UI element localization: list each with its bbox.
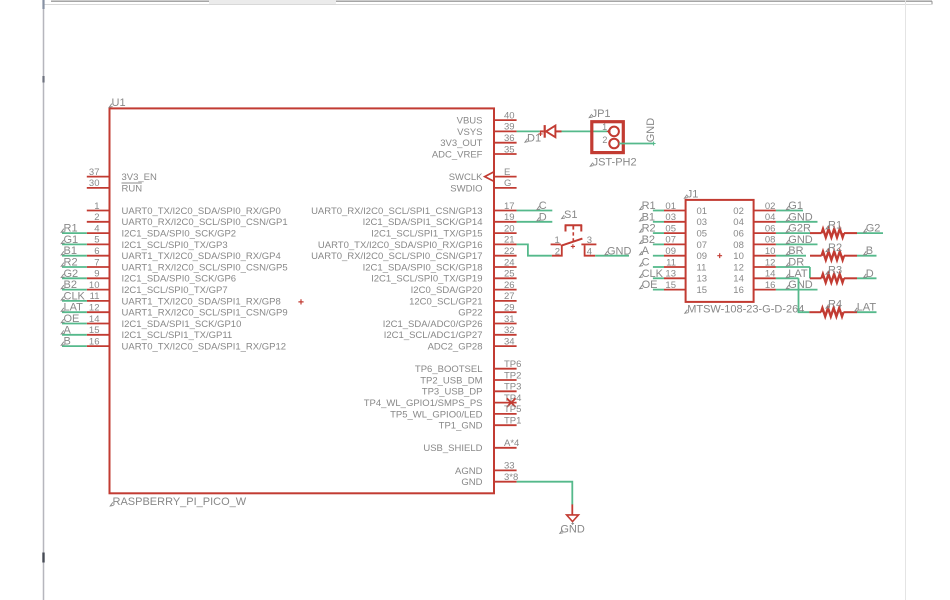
wire net DR from J1 pin 12 (776, 257, 810, 269)
J1 pin 10 right (733, 246, 776, 262)
svg-text:D: D (866, 268, 874, 280)
svg-text:22: 22 (504, 246, 515, 257)
wire net B2 to U1 pin 10 (61, 279, 87, 291)
U1 pin 33 (AGND) right (455, 461, 517, 477)
svg-text:01: 01 (665, 201, 676, 212)
svg-text:01: 01 (697, 206, 708, 217)
U1 pin 20 (I2C1_SCL/SPI1_TX/GP15) right (371, 223, 517, 239)
svg-text:VBUS: VBUS (457, 116, 483, 127)
svg-text:21: 21 (504, 235, 515, 246)
svg-text:3*8: 3*8 (504, 472, 518, 483)
U1 pin 14 (I2C1_SDA/SPI1_SCK/GP10) left (87, 314, 242, 330)
svg-text:LAT: LAT (64, 302, 84, 314)
svg-text:G2: G2 (866, 223, 881, 235)
J1 pin 08 right (733, 235, 776, 251)
J1 pin 11 left (664, 257, 706, 273)
J1 refdes label (684, 195, 687, 199)
J1 pin 16 right (733, 280, 776, 296)
svg-text:30: 30 (89, 178, 100, 189)
svg-text:I2C1_SCL/SPI1_TX/GP15: I2C1_SCL/SPI1_TX/GP15 (371, 229, 482, 240)
wire net G1 to U1 pin 5 (61, 234, 87, 246)
svg-text:TP1_GND: TP1_GND (439, 421, 483, 432)
R1 refdes label (826, 225, 829, 229)
svg-text:2: 2 (94, 212, 99, 223)
U1 pin TP3 (TP3_USB_DP) right (422, 382, 522, 398)
svg-text:ADC_VREF: ADC_VREF (432, 149, 483, 160)
svg-text:UART1_TX/I2C0_SDA/SPI0_RX/GP4: UART1_TX/I2C0_SDA/SPI0_RX/GP4 (122, 251, 281, 262)
wire net C from U1 pin 17 (517, 200, 553, 212)
svg-text:7: 7 (94, 257, 99, 268)
J1 pin 04 right (733, 212, 776, 228)
svg-text:12C0_SCL/GP21: 12C0_SCL/GP21 (409, 296, 482, 307)
svg-text:33: 33 (504, 461, 515, 472)
svg-text:I2C1_SCL/ADC1/GP27: I2C1_SCL/ADC1/GP27 (384, 330, 483, 341)
svg-text:RUN: RUN (122, 183, 143, 194)
J1 pin 13 left (664, 269, 707, 285)
svg-text:UART1_TX/I2C0_SDA/SPI1_RX/GP8: UART1_TX/I2C0_SDA/SPI1_RX/GP8 (122, 296, 281, 307)
svg-text:C: C (642, 257, 650, 269)
svg-text:UART0_TX/I2C0_SDA/SPI0_RX/GP0: UART0_TX/I2C0_SDA/SPI0_RX/GP0 (122, 206, 281, 217)
svg-text:TP6_BOOTSEL: TP6_BOOTSEL (415, 364, 483, 375)
svg-text:13: 13 (665, 269, 676, 280)
svg-text:VSYS: VSYS (457, 127, 482, 138)
svg-text:I2C1_SCL/SPI0_TX/GP7: I2C1_SCL/SPI0_TX/GP7 (122, 285, 228, 296)
U1 pin TP1 (TP1_GND) right (439, 416, 522, 432)
diode D1 (540, 125, 562, 138)
svg-text:26: 26 (504, 280, 515, 291)
wire D1 to JP1 pin1 (562, 130, 610, 132)
svg-text:10: 10 (733, 251, 744, 262)
svg-text:3V3_OUT: 3V3_OUT (440, 138, 482, 149)
svg-text:R2: R2 (642, 223, 656, 235)
svg-text:ADC2_GP28: ADC2_GP28 (428, 342, 483, 353)
svg-text:08: 08 (733, 240, 744, 251)
wire net CLK to J1 pin 13 (640, 268, 664, 280)
svg-text:15: 15 (665, 280, 676, 291)
U1 pin G (SWDIO) right (450, 178, 516, 194)
svg-text:I2C1_SCL/SPI0_TX/GP19: I2C1_SCL/SPI0_TX/GP19 (371, 274, 482, 285)
U1 pin TP6 (TP6_BOOTSEL) right (415, 359, 522, 375)
svg-text:B: B (866, 245, 873, 257)
U1 pin 35 (ADC_VREF) right (432, 144, 517, 160)
wire net LAT to U1 pin 12 (61, 302, 87, 314)
svg-text:11: 11 (90, 291, 100, 302)
svg-text:16: 16 (733, 285, 744, 296)
svg-text:20: 20 (504, 223, 515, 234)
svg-text:AGND: AGND (455, 466, 483, 477)
svg-text:09: 09 (697, 251, 708, 262)
wire net GND from J1 pin 16 (776, 279, 818, 291)
svg-text:I2C1_SDA/SPI0_SCK/GP2: I2C1_SDA/SPI0_SCK/GP2 (122, 229, 237, 240)
svg-text:CLK: CLK (642, 268, 664, 280)
svg-text:9: 9 (94, 269, 99, 280)
svg-text:5: 5 (94, 235, 99, 246)
svg-text:10: 10 (765, 246, 776, 257)
svg-text:I2C1_SCL/SPI0_TX/GP3: I2C1_SCL/SPI0_TX/GP3 (122, 240, 228, 251)
svg-text:06: 06 (733, 229, 744, 240)
U1 pin 39 (VSYS) right (457, 122, 516, 138)
U1 pin 30 (RUN) left (87, 178, 142, 194)
svg-text:TP5_WL_GPIO0/LED: TP5_WL_GPIO0/LED (390, 409, 483, 420)
S1 pin 3 (581, 243, 596, 245)
svg-text:SWDIO: SWDIO (450, 183, 482, 194)
svg-text:15: 15 (89, 325, 100, 336)
wire net R1 to J1 pin 01 (640, 200, 664, 212)
svg-text:4: 4 (587, 246, 592, 257)
svg-text:07: 07 (665, 235, 676, 246)
J1 pin 02 right (733, 201, 776, 217)
svg-text:GND: GND (788, 279, 813, 291)
svg-text:G1: G1 (64, 234, 79, 246)
svg-text:TP2_USB_DM: TP2_USB_DM (420, 375, 482, 386)
J1 pin 06 right (733, 223, 776, 239)
svg-text:09: 09 (665, 246, 676, 257)
U1 refdes label (109, 104, 112, 108)
svg-text:UART0_RX/I2C0_SCL/SPI1_CSN/GP1: UART0_RX/I2C0_SCL/SPI1_CSN/GP13 (311, 206, 482, 217)
svg-text:R3: R3 (828, 265, 842, 277)
connector JP1 outline (592, 122, 624, 153)
svg-text:16: 16 (765, 280, 776, 291)
U1 pin 4 (I2C1_SDA/SPI0_SCK/GP2) left (87, 223, 236, 239)
resistor R3 (810, 274, 857, 282)
JP1 value label JST-PH2 (590, 163, 593, 167)
svg-text:I2C0_SDA/GP20: I2C0_SDA/GP20 (411, 285, 483, 296)
svg-text:05: 05 (665, 223, 676, 234)
wire net A to U1 pin 15 (61, 324, 87, 336)
svg-text:1: 1 (94, 201, 99, 212)
svg-text:E: E (504, 167, 510, 178)
wire GND from U1 pin 3*8 (517, 482, 573, 505)
wire net BR from J1 pin 10 (776, 245, 806, 257)
svg-text:08: 08 (765, 235, 776, 246)
wire DR down to R3 (809, 267, 811, 278)
svg-text:B1: B1 (64, 245, 77, 257)
U1 pin 15 (I2C1_SCL/SPI1_TX/GP11) left (87, 325, 232, 341)
U1 pin 16 (UART0_TX/I2C0_SDA/SPI1_RX/GP12) left (87, 336, 286, 352)
svg-text:SWCLK: SWCLK (449, 172, 483, 183)
svg-text:CLK: CLK (64, 290, 86, 302)
svg-text:12: 12 (765, 257, 776, 268)
wire net G2 to U1 pin 9 (61, 268, 87, 280)
svg-text:UART0_RX/I2C0_SCL/SPI0_CSN/GP1: UART0_RX/I2C0_SCL/SPI0_CSN/GP1 (122, 217, 288, 228)
svg-text:RASPBERRY_PI_PICO_W: RASPBERRY_PI_PICO_W (113, 496, 247, 508)
wire JP1 pin2 to GND (619, 143, 654, 145)
svg-text:10: 10 (89, 280, 100, 291)
resistor R2 (810, 252, 857, 260)
svg-text:UART0_TX/I2C0_SDA/SPI1_RX/GP12: UART0_TX/I2C0_SDA/SPI1_RX/GP12 (122, 342, 287, 353)
svg-text:TP1: TP1 (504, 416, 521, 427)
IC U1 RASPBERRY_PI_PICO_W outline (110, 108, 495, 493)
svg-text:15: 15 (697, 285, 708, 296)
wire net D from R3 (857, 268, 877, 280)
U1 pin 34 (ADC2_GP28) right (428, 336, 517, 352)
svg-text:R1: R1 (828, 219, 842, 231)
JP1 pin 1 circle (609, 127, 619, 137)
svg-text:JST-PH2: JST-PH2 (593, 157, 637, 169)
wire net G2 from R1 (857, 223, 883, 235)
U1 pin 31 (I2C1_SDA/ADC0/GP26) right (383, 314, 517, 330)
wire net GND from J1 pin 04 (776, 211, 818, 223)
U1 pin 11 (UART1_TX/I2C0_SDA/SPI1_RX/GP8) left (87, 291, 281, 307)
svg-text:B: B (64, 336, 71, 348)
svg-text:B2: B2 (64, 279, 77, 291)
wire net R1 to U1 pin 4 (61, 223, 87, 235)
svg-text:B2: B2 (642, 234, 655, 246)
U1 pin 36 (3V3_OUT) right (440, 133, 516, 149)
svg-text:3: 3 (587, 235, 592, 246)
wire net G1 from J1 pin 02 (776, 200, 803, 212)
U1 pin 22 (UART0_RX/I2C0_SCL/SPI0_CSN/GP17) right (311, 246, 517, 262)
svg-text:R1: R1 (642, 200, 656, 212)
svg-text:14: 14 (733, 274, 744, 285)
switch S1 (561, 225, 583, 248)
U1 pin 6 (UART1_TX/I2C0_SDA/SPI0_RX/GP4) left (87, 246, 281, 262)
U1 pin 25 (I2C1_SCL/SPI0_TX/GP19) right (371, 269, 517, 285)
svg-text:14: 14 (765, 269, 776, 280)
resistor R1 (810, 229, 857, 237)
J1 pin 03 left (664, 212, 707, 228)
svg-text:OE: OE (64, 313, 80, 325)
D1 refdes label (525, 139, 528, 143)
svg-text:OE: OE (642, 279, 658, 291)
svg-text:12: 12 (733, 262, 744, 273)
U1 pin 17 (UART0_RX/I2C0_SCL/SPI1_CSN/GP13) right (311, 201, 517, 217)
U1 pin 27 (12C0_SCL/GP21) right (409, 291, 517, 307)
svg-text:04: 04 (733, 217, 744, 228)
svg-text:1: 1 (602, 122, 607, 132)
svg-text:06: 06 (765, 223, 776, 234)
svg-text:TP6: TP6 (504, 359, 521, 370)
svg-text:DR: DR (788, 257, 804, 269)
U1 pin 5 (I2C1_SCL/SPI0_TX/GP3) left (87, 235, 228, 251)
svg-text:TP3: TP3 (504, 382, 521, 393)
svg-text:A: A (642, 245, 650, 257)
svg-text:JP1: JP1 (592, 108, 611, 120)
svg-text:UART1_RX/I2C0_SCL/SPI1_CSN/GP9: UART1_RX/I2C0_SCL/SPI1_CSN/GP9 (122, 308, 288, 319)
J1 pin 05 left (664, 223, 707, 239)
ui tab bar top (209, 0, 336, 4)
svg-text:G2: G2 (64, 268, 79, 280)
J1 pin 01 left (664, 201, 707, 217)
svg-text:32: 32 (504, 325, 515, 336)
svg-text:35: 35 (504, 144, 515, 155)
svg-text:D: D (539, 211, 547, 223)
JP1 refdes label (589, 114, 592, 118)
U1 pin TP4 (TP4_WL_GPIO1/SMPS_PS) right (364, 393, 522, 409)
svg-text:S1: S1 (564, 209, 577, 221)
U1 pin 24 (I2C1_SDA/SPI0_SCK/GP18) right (363, 257, 517, 273)
svg-text:TP3_USB_DP: TP3_USB_DP (422, 387, 483, 398)
svg-text:USB_SHIELD: USB_SHIELD (423, 443, 482, 454)
U1 pin 1 (UART0_TX/I2C0_SDA/SPI0_RX/GP0) left (87, 201, 281, 217)
svg-text:37: 37 (89, 167, 100, 178)
wire LAT down to R4 (799, 278, 810, 312)
svg-text:GND: GND (607, 245, 632, 257)
svg-text:02: 02 (765, 201, 776, 212)
U1 pin 26 (I2C0_SDA/GP20) right (411, 280, 517, 296)
U1 pin 10 (I2C1_SCL/SPI0_TX/GP7) left (87, 280, 228, 296)
J1 pin 15 left (664, 280, 707, 296)
svg-text:07: 07 (697, 240, 708, 251)
U1 pin 40 (VBUS) right (457, 110, 517, 126)
svg-text:12: 12 (89, 303, 100, 314)
svg-text:04: 04 (765, 212, 776, 223)
JP1 pin 2 circle (609, 139, 619, 149)
connector J1 outline (686, 200, 754, 302)
svg-text:LAT: LAT (788, 268, 808, 280)
S1 pin 1 (551, 243, 561, 245)
J1 pin 12 right (733, 257, 776, 273)
J1 value label MTSW-108-23-G-D-264 (685, 310, 688, 314)
R3 refdes label (826, 271, 829, 275)
svg-text:TP5: TP5 (504, 404, 521, 415)
svg-text:G2R: G2R (788, 223, 811, 235)
svg-text:GND: GND (461, 477, 482, 488)
wire net B to U1 pin 16 (61, 336, 87, 348)
R4 refdes label (826, 305, 829, 309)
svg-text:11: 11 (697, 262, 707, 273)
svg-text:MTSW-108-23-G-D-264: MTSW-108-23-G-D-264 (687, 304, 804, 316)
svg-text:02: 02 (733, 206, 744, 217)
J1 pin 07 left (664, 235, 707, 251)
svg-text:14: 14 (89, 314, 100, 325)
svg-text:03: 03 (697, 217, 708, 228)
U1 value label RASPBERRY_PI_PICO_W (110, 502, 113, 506)
J1 origin cross (717, 253, 722, 258)
ui right faint divider (905, 0, 907, 600)
svg-text:13: 13 (697, 274, 708, 285)
wire net A to J1 pin 09 (640, 245, 664, 257)
wire net C to J1 pin 11 (640, 257, 664, 269)
svg-text:U1: U1 (112, 97, 126, 109)
svg-text:GND: GND (788, 211, 813, 223)
wire net OE to U1 pin 14 (61, 313, 87, 325)
svg-text:R2: R2 (828, 242, 842, 254)
U1 pin 37 (3V3_EN) left (87, 167, 157, 183)
wire net G2R from J1 pin 06 (776, 223, 811, 235)
U1 pin 19 (I2C1_SDA/SPI1_SCK/GP14) right (363, 212, 517, 228)
svg-text:3V3_EN: 3V3_EN (122, 172, 158, 183)
svg-text:24: 24 (504, 257, 515, 268)
S1 refdes label (562, 215, 565, 219)
svg-text:BR: BR (788, 245, 803, 257)
resistor R4 (809, 308, 857, 316)
svg-text:16: 16 (89, 336, 100, 347)
U1 pin 32 (I2C1_SCL/ADC1/GP27) right (384, 325, 517, 341)
wire VSYS pin39 to D1 (517, 130, 540, 132)
svg-text:05: 05 (697, 229, 708, 240)
svg-text:29: 29 (504, 303, 515, 314)
svg-text:GP22: GP22 (458, 308, 482, 319)
U1 pin TP5 (TP5_WL_GPIO0/LED) right (390, 404, 521, 420)
svg-text:4: 4 (94, 223, 99, 234)
J1 pin 09 left (664, 246, 707, 262)
svg-text:LAT: LAT (857, 302, 877, 314)
svg-text:2: 2 (555, 246, 560, 257)
wire net OE to J1 pin 15 (640, 279, 664, 291)
svg-text:36: 36 (504, 133, 515, 144)
U1 pin 21 (UART0_TX/I2C0_SDA/SPI0_RX/GP16) right (318, 235, 517, 251)
svg-text:6: 6 (94, 246, 99, 257)
svg-text:G1: G1 (788, 200, 803, 212)
R2 refdes label (826, 248, 829, 252)
svg-text:03: 03 (665, 212, 676, 223)
U1 pin 29 (GP22) right (458, 303, 516, 319)
svg-text:I2C1_SDA/ADC0/GP26: I2C1_SDA/ADC0/GP26 (383, 319, 483, 330)
U1 pin 7 (UART1_RX/I2C0_SCL/SPI0_CSN/GP5) left (87, 257, 288, 273)
wire net GND from J1 pin 08 (776, 234, 818, 246)
wire net R2 to U1 pin 7 (61, 257, 87, 269)
svg-text:11: 11 (666, 257, 676, 268)
wire net B from R2 (857, 245, 877, 257)
wire S1 pin4 to GND (595, 255, 629, 257)
svg-text:R1: R1 (64, 223, 78, 235)
svg-text:19: 19 (504, 212, 515, 223)
svg-text:2: 2 (602, 135, 607, 145)
svg-text:I2C1_SCL/SPI1_TX/GP11: I2C1_SCL/SPI1_TX/GP11 (122, 330, 233, 341)
wire net B1 to J1 pin 03 (640, 211, 664, 223)
wire net D from U1 pin 19 (517, 211, 553, 223)
svg-text:J1: J1 (687, 189, 699, 201)
svg-text:C: C (539, 200, 547, 212)
svg-text:UART0_TX/I2C0_SDA/SPI0_RX/GP16: UART0_TX/I2C0_SDA/SPI0_RX/GP16 (318, 240, 483, 251)
S1 pin 4 (585, 245, 596, 256)
U1 pin 3*8 (GND) right (461, 472, 518, 488)
U1 pin A*4 (USB_SHIELD) right (423, 438, 519, 454)
svg-text:34: 34 (504, 336, 515, 347)
svg-text:40: 40 (504, 110, 515, 121)
svg-text:I2C1_SDA/SPI1_SCK/GP10: I2C1_SDA/SPI1_SCK/GP10 (122, 319, 242, 330)
wire net LAT from J1 pin 14 (776, 268, 808, 280)
svg-text:I2C1_SDA/SPI0_SCK/GP18: I2C1_SDA/SPI0_SCK/GP18 (363, 262, 483, 273)
svg-text:UART0_RX/I2C0_SCL/SPI0_CSN/GP1: UART0_RX/I2C0_SCL/SPI0_CSN/GP17 (311, 251, 482, 262)
svg-text:TP4_WL_GPIO1/SMPS_PS: TP4_WL_GPIO1/SMPS_PS (364, 398, 483, 409)
svg-text:25: 25 (504, 269, 515, 280)
svg-text:I2C1_SDA/SPI0_SCK/GP6: I2C1_SDA/SPI0_SCK/GP6 (122, 274, 237, 285)
J1 pin 14 right (733, 269, 776, 285)
wire net CLK to U1 pin 11 (61, 290, 87, 302)
svg-text:B1: B1 (642, 211, 655, 223)
svg-text:R4: R4 (828, 299, 842, 311)
svg-text:A: A (64, 324, 72, 336)
svg-text:R2: R2 (64, 257, 78, 269)
wire net R2 to J1 pin 05 (640, 223, 664, 235)
wire U1 pin21 GP16 to S1 pin2 (517, 244, 552, 255)
U1 pin E (SWCLK) right (449, 167, 517, 183)
svg-text:UART1_RX/I2C0_SCL/SPI0_CSN/GP5: UART1_RX/I2C0_SCL/SPI0_CSN/GP5 (122, 262, 288, 273)
ground label GND (560, 530, 563, 534)
S1 pin 2 (552, 245, 562, 256)
U1 pin 9 (I2C1_SDA/SPI0_SCK/GP6) left (87, 269, 236, 285)
net label GND at S1 (605, 251, 608, 255)
ui left scrollbar line (43, 0, 45, 600)
wire net B2 to J1 pin 07 (640, 234, 664, 246)
svg-text:39: 39 (504, 122, 515, 133)
U1 pin 2 (UART0_RX/I2C0_SCL/SPI0_CSN/GP1) left (87, 212, 288, 228)
wire net B1 to U1 pin 6 (61, 245, 87, 257)
svg-text:GND: GND (560, 524, 585, 536)
ground symbol GND bottom (567, 504, 579, 521)
svg-text:I2C1_SDA/SPI1_SCK/GP14: I2C1_SDA/SPI1_SCK/GP14 (363, 217, 483, 228)
wire net LAT from R4 (855, 302, 877, 314)
svg-text:17: 17 (504, 201, 515, 212)
svg-text:G: G (504, 178, 511, 189)
svg-text:27: 27 (504, 291, 515, 302)
svg-text:GND: GND (645, 118, 657, 143)
U1 pin TP2 (TP2_USB_DM) right (420, 370, 521, 386)
U1 origin cross (298, 299, 303, 304)
U1 pin 12 (UART1_RX/I2C0_SCL/SPI1_CSN/GP9) left (87, 303, 288, 319)
